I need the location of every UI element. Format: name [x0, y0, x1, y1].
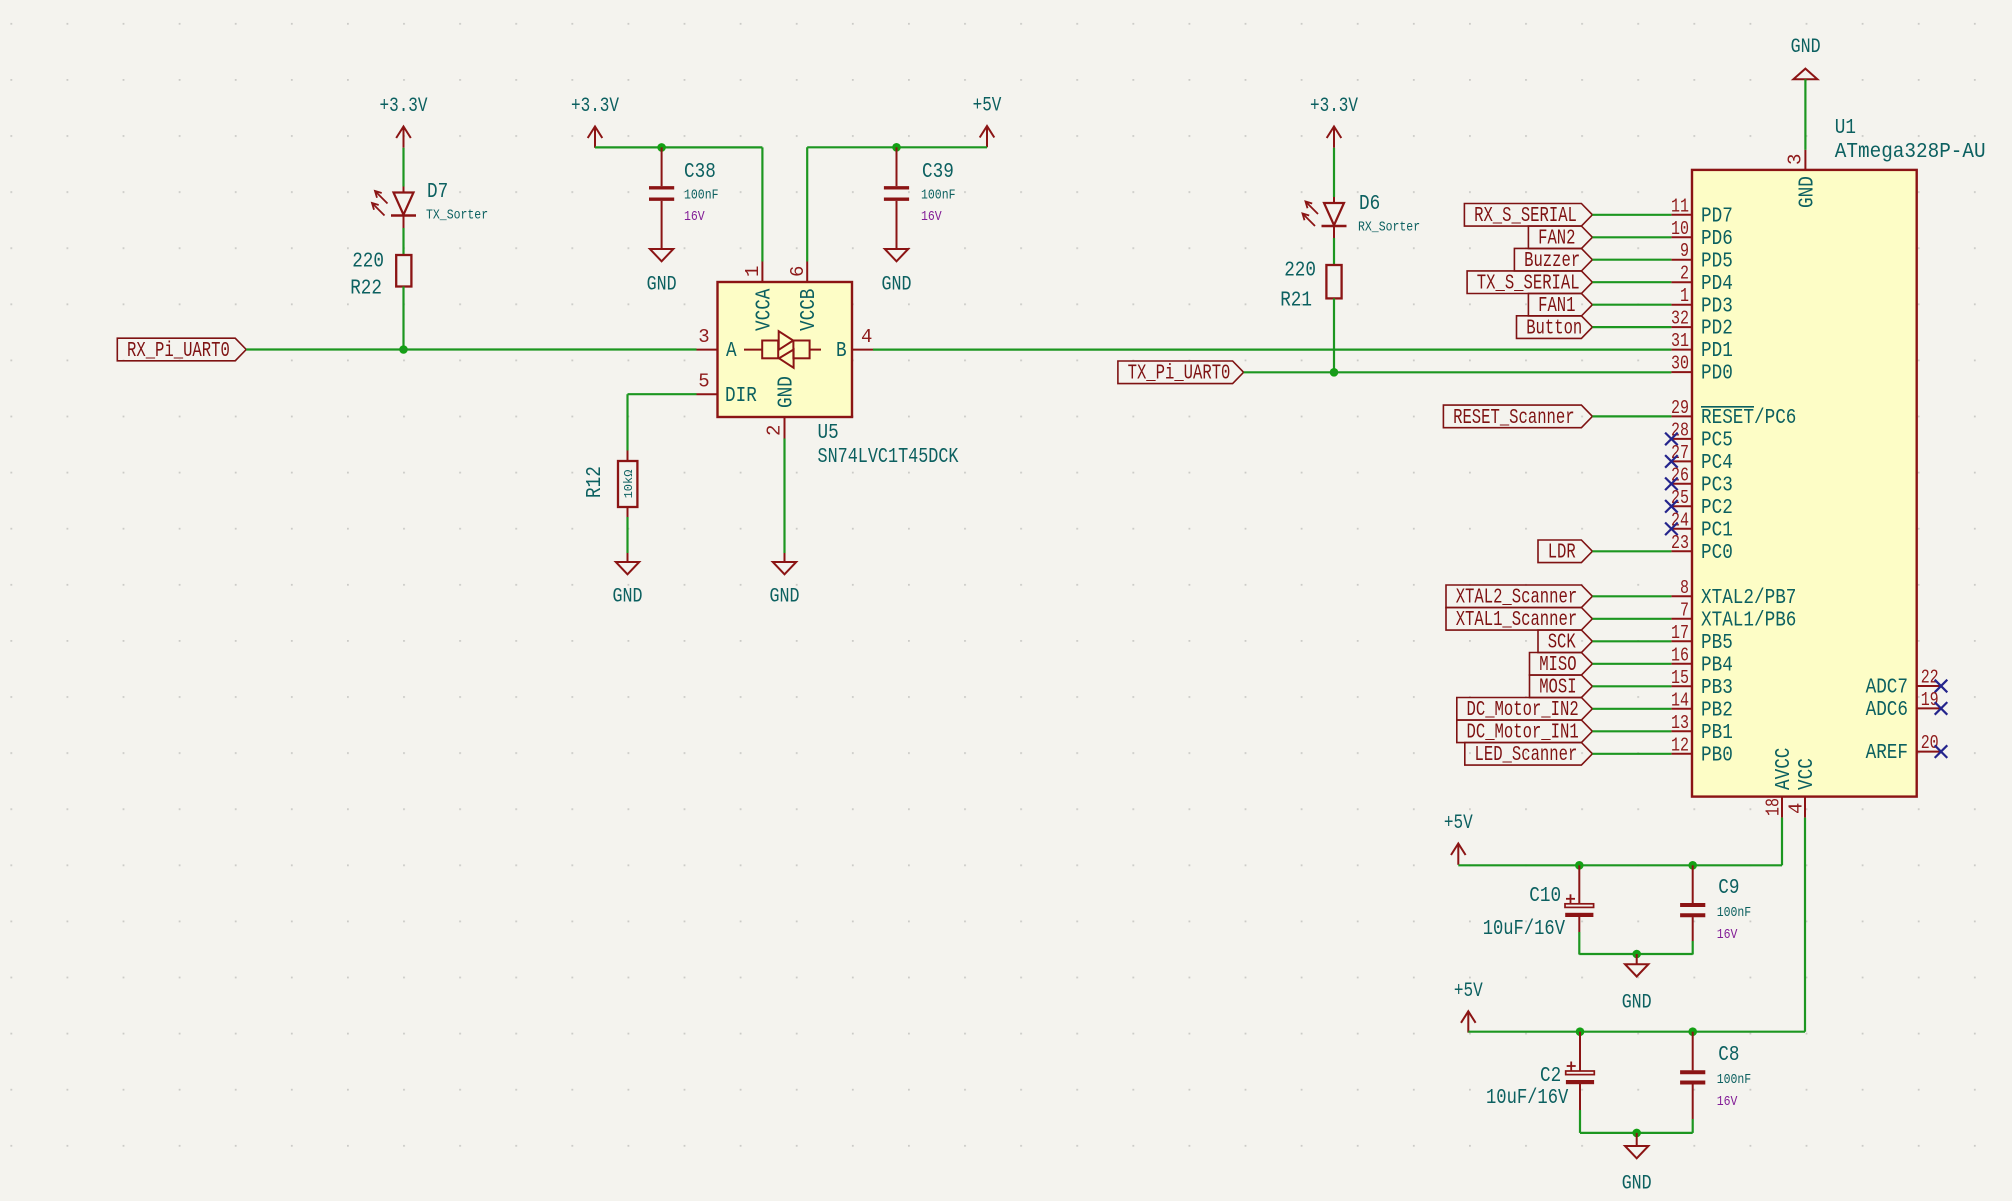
hierarchical label MOSI: [1530, 675, 1593, 700]
svg-text:PC1: PC1: [1701, 518, 1733, 542]
svg-text:C9: C9: [1718, 877, 1739, 900]
svg-text:16V: 16V: [921, 209, 942, 225]
svg-text:VCC: VCC: [1795, 758, 1819, 790]
led D7 TX_Sorter: [372, 181, 488, 228]
svg-text:PB5: PB5: [1701, 631, 1733, 655]
U1 pin 28 PC5: [1665, 419, 1733, 452]
hierarchical label LDR: [1538, 540, 1592, 565]
U1 pin 10 PD6: [1671, 218, 1733, 251]
svg-text:Buzzer: Buzzer: [1524, 250, 1580, 273]
resistor R22: [350, 251, 411, 301]
wire +5V rail lower: [1468, 1031, 1805, 1033]
svg-text:PB0: PB0: [1701, 743, 1733, 767]
junction: [1576, 1027, 1585, 1036]
svg-text:D6: D6: [1359, 193, 1380, 216]
svg-text:16V: 16V: [684, 209, 705, 225]
ground (U1 top): [1791, 36, 1821, 79]
ground (C10/C9): [1622, 954, 1652, 1015]
U1 pin 24 PC1: [1665, 509, 1733, 542]
svg-text:GND: GND: [1791, 36, 1821, 59]
svg-text:D7: D7: [427, 181, 448, 204]
wire: [1592, 214, 1671, 216]
svg-text:GND: GND: [613, 586, 643, 609]
svg-text:PC0: PC0: [1701, 541, 1733, 565]
hierarchical label DC_Motor_IN1: [1457, 720, 1593, 745]
wire: [1592, 304, 1671, 306]
svg-text:PB1: PB1: [1701, 721, 1733, 745]
svg-text:GND: GND: [1622, 992, 1652, 1015]
svg-text:16V: 16V: [1717, 1094, 1738, 1110]
wire DIR: [628, 393, 697, 395]
hierarchical label RESET_Scanner: [1443, 405, 1592, 430]
svg-text:U1: U1: [1835, 117, 1856, 140]
wire: [402, 228, 404, 255]
svg-text:+3.3V: +3.3V: [571, 95, 619, 118]
wire: [1592, 753, 1671, 755]
U1 pin 4 VCC: [1786, 758, 1820, 817]
capacitor C39: [884, 147, 956, 238]
svg-text:R12: R12: [584, 466, 607, 498]
svg-text:ADC7: ADC7: [1866, 676, 1908, 700]
svg-text:RX_Pi_UART0: RX_Pi_UART0: [127, 340, 230, 363]
U1 pin 23 PC0: [1671, 532, 1733, 565]
power +3.3V (D7 branch): [380, 95, 428, 148]
hierarchical label TX_S_SERIAL: [1467, 271, 1592, 296]
U5 pin 4 B: [836, 326, 873, 363]
junction: [892, 143, 901, 152]
svg-text:18: 18: [1763, 798, 1785, 816]
svg-text:31: 31: [1671, 330, 1689, 352]
wire: [1333, 238, 1335, 265]
svg-text:7: 7: [1680, 599, 1689, 621]
svg-text:VCCB: VCCB: [797, 289, 821, 331]
U1 pin 19 ADC6: [1866, 689, 1948, 722]
svg-text:11: 11: [1671, 195, 1689, 217]
hierarchical label FAN2: [1528, 226, 1592, 251]
led D6 RX_Sorter: [1303, 193, 1421, 238]
svg-text:MISO: MISO: [1539, 654, 1576, 677]
wire: [402, 148, 404, 187]
junction: [1688, 861, 1697, 870]
U1 pin 16 PB4: [1671, 644, 1733, 677]
svg-text:RX_Sorter: RX_Sorter: [1358, 220, 1420, 236]
svg-text:GND: GND: [1796, 176, 1820, 208]
wire VCC down: [1804, 818, 1806, 1032]
hierarchical label RX_S_SERIAL: [1464, 204, 1592, 229]
U1 pin 3 GND (top): [1784, 150, 1819, 208]
power +5V (C39): [973, 95, 1002, 148]
svg-text:10kΩ: 10kΩ: [622, 470, 636, 499]
svg-text:XTAL2_Scanner: XTAL2_Scanner: [1456, 587, 1578, 610]
svg-text:100nF: 100nF: [921, 188, 956, 204]
svg-text:30: 30: [1671, 353, 1689, 375]
svg-text:SCK: SCK: [1548, 632, 1576, 655]
wire R21 to TX junction: [1333, 298, 1335, 372]
svg-text:PD4: PD4: [1701, 272, 1733, 296]
svg-text:SN74LVC1T45DCK: SN74LVC1T45DCK: [818, 446, 959, 469]
wire to U5 pin1: [761, 147, 763, 261]
svg-text:MOSI: MOSI: [1539, 677, 1576, 700]
svg-text:13: 13: [1671, 712, 1689, 734]
U1 pin 11 PD7: [1671, 195, 1733, 228]
svg-text:PB4: PB4: [1701, 653, 1733, 677]
junction: [1575, 861, 1584, 870]
U1 pin 1 PD3: [1671, 285, 1732, 318]
U1 pin 18 AVCC: [1763, 748, 1797, 818]
svg-text:R22: R22: [350, 278, 382, 301]
mcu U1 ATmega328P-AU body: [1692, 117, 1986, 797]
wire: [1592, 415, 1671, 417]
wire: [1592, 236, 1671, 238]
wire cap bottoms: [1580, 1132, 1693, 1134]
svg-text:PD7: PD7: [1701, 204, 1733, 228]
svg-text:17: 17: [1671, 622, 1689, 644]
U5 pin 2 GND: [764, 376, 799, 438]
wire AVCC down: [1781, 818, 1783, 866]
wire U5 pin2 to ground: [783, 439, 785, 554]
svg-text:GND: GND: [1622, 1173, 1652, 1196]
U1 pin 14 PB2: [1671, 689, 1733, 722]
svg-text:+5V: +5V: [1454, 980, 1483, 1003]
svg-text:GND: GND: [770, 586, 800, 609]
ic U5 SN74LVC1T45DCK body: [718, 282, 959, 469]
wire +5V rail upper: [1458, 864, 1782, 866]
svg-text:GND: GND: [775, 376, 799, 408]
svg-text:TX_S_SERIAL: TX_S_SERIAL: [1477, 273, 1580, 296]
wire: [1592, 708, 1671, 710]
U5 pin 1 VCCA: [742, 262, 776, 332]
hierarchical label RX_Pi_UART0: [117, 338, 246, 363]
svg-text:C39: C39: [922, 161, 954, 184]
svg-text:3: 3: [1784, 154, 1806, 165]
svg-text:1: 1: [742, 266, 764, 277]
wire: [626, 517, 628, 553]
wire: [1592, 618, 1671, 620]
svg-text:FAN1: FAN1: [1538, 295, 1575, 318]
U1 pin 9 PD5: [1671, 240, 1732, 273]
svg-text:RESET_Scanner: RESET_Scanner: [1453, 407, 1575, 430]
U1 pin 25 PC2: [1665, 487, 1733, 520]
wire cap bottoms: [1579, 953, 1692, 955]
hierarchical label TX_Pi_UART0: [1118, 361, 1244, 386]
junction: [1688, 1027, 1697, 1036]
svg-text:4: 4: [861, 326, 872, 348]
U1 pin 27 PC4: [1665, 442, 1733, 475]
U1 pin 17 PB5: [1671, 622, 1733, 655]
wire: [1592, 550, 1671, 552]
svg-text:RESET/PC6: RESET/PC6: [1701, 406, 1796, 430]
svg-text:TX_Pi_UART0: TX_Pi_UART0: [1128, 363, 1231, 386]
ground (C38): [647, 238, 677, 297]
svg-text:PC3: PC3: [1701, 473, 1733, 497]
power +5V (AVCC rail): [1444, 812, 1473, 865]
svg-text:ADC6: ADC6: [1866, 698, 1908, 722]
svg-text:PB3: PB3: [1701, 676, 1733, 700]
svg-text:Button: Button: [1526, 318, 1582, 341]
svg-text:100nF: 100nF: [1717, 1072, 1752, 1088]
svg-text:14: 14: [1671, 689, 1689, 711]
wire: [402, 287, 404, 350]
svg-text:15: 15: [1671, 667, 1689, 689]
svg-text:R21: R21: [1280, 290, 1312, 313]
svg-text:220: 220: [1284, 260, 1316, 283]
svg-text:LDR: LDR: [1548, 542, 1576, 565]
wire TX_Pi_UART0 to U1.PD0: [1244, 371, 1672, 373]
svg-text:20: 20: [1921, 732, 1939, 754]
wire RX_Pi_UART0 to U5.A: [246, 348, 696, 350]
ground (C2/C8): [1622, 1133, 1652, 1196]
U1 pin 29 RESET/PC6: [1671, 397, 1796, 430]
U5 pin 6 VCCB: [787, 262, 821, 332]
svg-text:1: 1: [1680, 285, 1689, 307]
U1 pin 12 PB0: [1671, 734, 1733, 767]
svg-text:DC_Motor_IN2: DC_Motor_IN2: [1467, 699, 1579, 722]
U5 pin 5 DIR: [697, 371, 757, 408]
U1 pin 13 PB1: [1671, 712, 1733, 745]
svg-text:5: 5: [698, 371, 709, 393]
svg-text:16: 16: [1671, 644, 1689, 666]
svg-text:XTAL1/PB6: XTAL1/PB6: [1701, 608, 1796, 632]
svg-text:29: 29: [1671, 397, 1689, 419]
hierarchical label Buzzer: [1514, 248, 1592, 273]
U1 pin 15 PB3: [1671, 667, 1733, 700]
svg-text:C10: C10: [1529, 885, 1561, 908]
svg-text:23: 23: [1671, 532, 1689, 554]
svg-text:PD6: PD6: [1701, 227, 1733, 251]
U1 pin 26 PC3: [1665, 464, 1733, 497]
U1 pin 8 XTAL2/PB7: [1671, 577, 1796, 610]
wire: [1592, 259, 1671, 261]
svg-text:PD5: PD5: [1701, 249, 1733, 273]
svg-text:B: B: [836, 339, 847, 363]
wire: [1592, 685, 1671, 687]
wire: [1592, 640, 1671, 642]
junction: [657, 143, 666, 152]
wire to U5 pin6: [806, 147, 808, 261]
hierarchical label SCK: [1538, 630, 1592, 655]
svg-text:+5V: +5V: [1444, 812, 1473, 835]
U1 pin 2 PD4: [1671, 263, 1732, 296]
capacitor C10 10uF/16V: [1483, 865, 1594, 954]
svg-text:10uF/16V: 10uF/16V: [1486, 1087, 1569, 1110]
U1 pin 7 XTAL1/PB6: [1671, 599, 1796, 632]
wire: [1592, 663, 1671, 665]
hierarchical label LED_Scanner: [1465, 743, 1593, 768]
capacitor C38: [649, 147, 719, 238]
capacitor C2 10uF/16V: [1486, 1032, 1594, 1133]
svg-text:3: 3: [698, 326, 709, 348]
svg-text:FAN2: FAN2: [1538, 228, 1575, 251]
svg-text:6: 6: [787, 266, 809, 277]
svg-text:PD0: PD0: [1701, 362, 1733, 386]
hierarchical label FAN1: [1528, 293, 1592, 318]
svg-text:C2: C2: [1540, 1065, 1561, 1088]
junction: [1632, 1129, 1641, 1138]
svg-text:DIR: DIR: [725, 384, 757, 408]
svg-text:AVCC: AVCC: [1772, 748, 1796, 790]
ground (U5): [770, 553, 800, 609]
svg-text:10uF/16V: 10uF/16V: [1483, 918, 1566, 941]
U1 pin 30 PD0: [1671, 353, 1733, 386]
wire: [1592, 595, 1671, 597]
svg-text:100nF: 100nF: [684, 188, 719, 204]
U1 pin 20 AREF: [1866, 732, 1948, 765]
svg-text:ATmega328P-AU: ATmega328P-AU: [1835, 141, 1986, 164]
wire: [595, 146, 762, 148]
power +3.3V (D6 branch): [1310, 95, 1358, 148]
svg-text:8: 8: [1680, 577, 1689, 599]
resistor R12 10k: [584, 451, 637, 518]
hierarchical label Button: [1517, 316, 1593, 341]
svg-text:19: 19: [1921, 689, 1939, 711]
svg-text:DC_Motor_IN1: DC_Motor_IN1: [1467, 722, 1579, 745]
U1 pin 32 PD2: [1671, 308, 1733, 341]
svg-text:A: A: [726, 339, 737, 363]
svg-text:TX_Sorter: TX_Sorter: [426, 208, 488, 224]
svg-text:C38: C38: [684, 161, 716, 184]
svg-text:9: 9: [1680, 240, 1689, 262]
svg-text:PC4: PC4: [1701, 451, 1733, 475]
svg-text:XTAL1_Scanner: XTAL1_Scanner: [1456, 609, 1578, 632]
wire: [1592, 730, 1671, 732]
svg-text:XTAL2/PB7: XTAL2/PB7: [1701, 586, 1796, 610]
wire GND to U1 pin3: [1804, 79, 1806, 150]
svg-text:PB2: PB2: [1701, 698, 1733, 722]
svg-text:VCCA: VCCA: [752, 289, 776, 331]
svg-text:AREF: AREF: [1866, 741, 1908, 765]
svg-text:+3.3V: +3.3V: [380, 95, 428, 118]
power +5V (VCC rail): [1454, 980, 1483, 1033]
svg-text:PC5: PC5: [1701, 429, 1733, 453]
svg-text:LED_Scanner: LED_Scanner: [1475, 744, 1578, 767]
ground (R12): [613, 553, 643, 609]
wire: [807, 146, 987, 148]
svg-text:RX_S_SERIAL: RX_S_SERIAL: [1474, 205, 1577, 228]
U1 pin 31 PD1: [1671, 330, 1733, 363]
junction: [399, 345, 408, 354]
svg-text:2: 2: [1680, 263, 1689, 285]
junction: [1330, 368, 1339, 377]
svg-text:GND: GND: [882, 274, 912, 297]
svg-text:PD3: PD3: [1701, 294, 1733, 318]
svg-text:PD1: PD1: [1701, 339, 1733, 363]
capacitor C9 100nF: [1680, 865, 1751, 954]
svg-text:2: 2: [764, 425, 786, 436]
svg-text:100nF: 100nF: [1717, 905, 1752, 921]
hierarchical label DC_Motor_IN2: [1457, 698, 1593, 723]
svg-text:PD2: PD2: [1701, 317, 1733, 341]
junction: [1632, 950, 1641, 959]
svg-text:U5: U5: [818, 422, 839, 445]
hierarchical label MISO: [1530, 653, 1593, 678]
svg-text:16V: 16V: [1717, 927, 1738, 943]
svg-text:220: 220: [352, 251, 384, 274]
wire: [1333, 148, 1335, 197]
svg-text:C8: C8: [1718, 1044, 1739, 1067]
svg-text:4: 4: [1786, 803, 1808, 814]
ground (C39): [882, 238, 912, 297]
hierarchical label XTAL1_Scanner: [1446, 608, 1592, 633]
hierarchical label XTAL2_Scanner: [1446, 585, 1592, 610]
resistor R21: [1280, 260, 1341, 313]
svg-text:+3.3V: +3.3V: [1310, 95, 1358, 118]
svg-text:32: 32: [1671, 308, 1689, 330]
wire: [1592, 281, 1671, 283]
U5 pin 3 A: [697, 326, 737, 363]
svg-text:GND: GND: [647, 274, 677, 297]
wire U5.B to U1.PD1: [873, 349, 1671, 351]
U1 pin 22 ADC7: [1866, 667, 1948, 700]
wire: [1592, 326, 1671, 328]
capacitor C8 100nF: [1680, 1032, 1751, 1133]
svg-text:PC2: PC2: [1701, 496, 1733, 520]
svg-text:10: 10: [1671, 218, 1689, 240]
power +3.3V (C38): [571, 95, 619, 148]
svg-text:+5V: +5V: [973, 95, 1002, 118]
svg-text:12: 12: [1671, 734, 1689, 756]
svg-text:22: 22: [1921, 667, 1939, 689]
